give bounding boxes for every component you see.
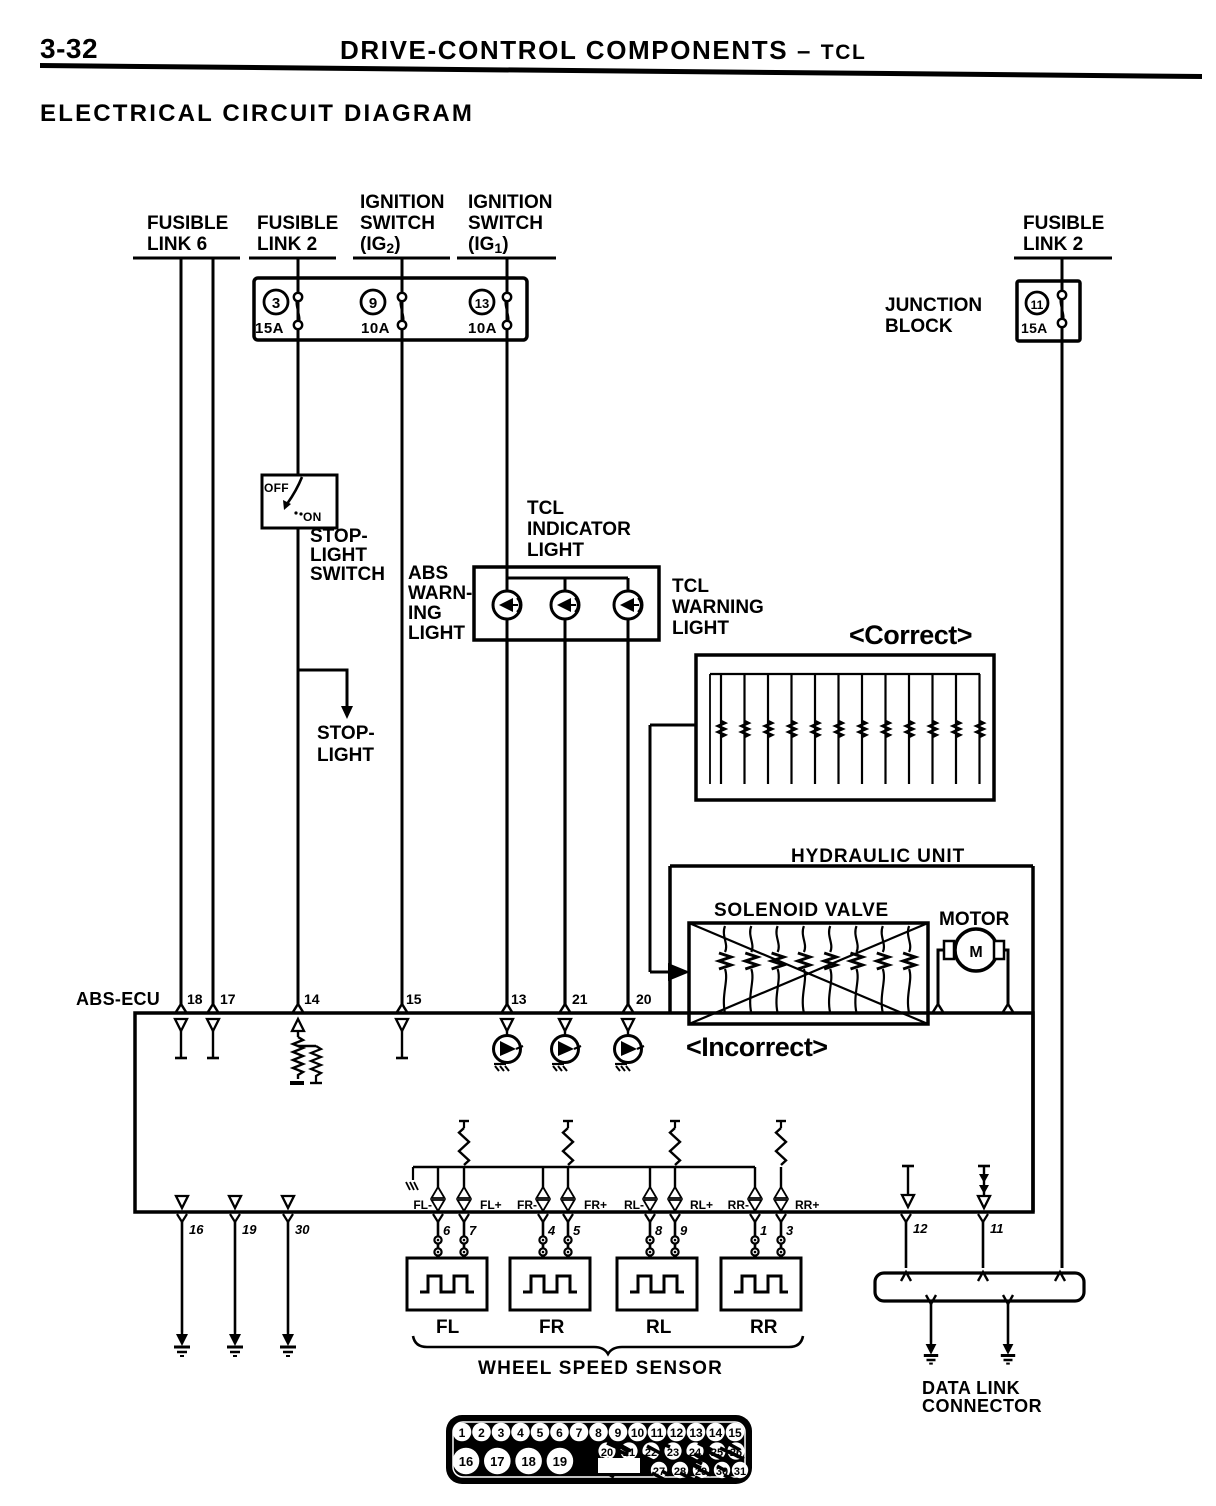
svg-text:14: 14 [709,1426,723,1440]
svg-text:LIGHT: LIGHT [317,745,374,766]
svg-text:3-32: 3-32 [40,33,98,64]
svg-text:JUNCTION: JUNCTION [885,295,982,316]
svg-text:9: 9 [680,1223,688,1238]
svg-text:LINK 2: LINK 2 [257,234,317,255]
svg-text:7: 7 [576,1426,583,1440]
svg-text:5: 5 [537,1426,544,1440]
svg-text:20: 20 [636,991,652,1007]
svg-text:LINK 2: LINK 2 [1023,234,1083,255]
svg-text:13: 13 [689,1426,703,1440]
svg-text:FR: FR [539,1317,565,1338]
svg-text:ABS: ABS [408,563,448,584]
svg-text:FL+: FL+ [480,1198,502,1212]
svg-text:FL: FL [436,1317,460,1338]
svg-text:(IG2): (IG2) [360,234,401,256]
svg-text:11: 11 [990,1221,1004,1236]
svg-text:9: 9 [369,295,377,312]
svg-text:10: 10 [631,1426,645,1440]
svg-text:LIGHT: LIGHT [672,618,729,639]
svg-text:TCL: TCL [527,498,564,519]
svg-text:OFF: OFF [264,481,289,495]
svg-text:6: 6 [443,1223,451,1238]
svg-text:10A: 10A [361,320,390,337]
svg-text:RL+: RL+ [690,1198,713,1212]
svg-text:12: 12 [670,1426,684,1440]
svg-text:31: 31 [734,1466,746,1478]
svg-text:13: 13 [475,296,489,311]
svg-text:IGNITION: IGNITION [360,192,444,213]
svg-text:17: 17 [220,991,236,1007]
svg-text:FL-: FL- [413,1198,432,1212]
svg-text:19: 19 [242,1222,257,1237]
svg-text:ON: ON [303,510,322,524]
svg-text:15A: 15A [255,320,284,337]
svg-text:WARN-: WARN- [408,583,472,604]
svg-text:SOLENOID VALVE: SOLENOID VALVE [714,900,889,921]
svg-text:19: 19 [553,1454,567,1469]
svg-text:ING: ING [408,603,442,624]
svg-text:15A: 15A [1021,320,1048,336]
svg-text:IGNITION: IGNITION [468,192,552,213]
svg-text:STOP-: STOP- [310,526,368,547]
svg-text:23: 23 [667,1447,679,1459]
svg-text:30: 30 [295,1222,310,1237]
svg-text:6: 6 [556,1426,563,1440]
svg-text:15: 15 [728,1426,742,1440]
svg-text:RL: RL [646,1317,672,1338]
svg-text:STOP-: STOP- [317,723,375,744]
svg-text:<Correct>: <Correct> [849,620,972,650]
svg-text:11: 11 [1031,298,1044,312]
svg-text:3: 3 [498,1426,505,1440]
svg-text:M: M [969,944,982,961]
svg-text:RR+: RR+ [795,1198,819,1212]
svg-text:8: 8 [595,1426,602,1440]
svg-text:WARNING: WARNING [672,597,764,618]
svg-text:18: 18 [521,1454,535,1469]
svg-text:16: 16 [459,1454,473,1469]
svg-text:HYDRAULIC UNIT: HYDRAULIC UNIT [791,846,965,867]
svg-text:12: 12 [913,1221,928,1236]
svg-text:LIGHT: LIGHT [527,540,584,561]
svg-text:18: 18 [187,991,203,1007]
svg-text:SWITCH: SWITCH [468,213,543,234]
svg-text:MOTOR: MOTOR [939,909,1010,930]
svg-text:13: 13 [511,991,527,1007]
svg-text:RL-: RL- [624,1198,644,1212]
svg-text:FR-: FR- [517,1198,537,1212]
svg-text:FR+: FR+ [584,1198,607,1212]
svg-text:10A: 10A [468,320,497,337]
svg-text:FUSIBLE: FUSIBLE [1023,213,1104,234]
svg-text:1: 1 [760,1223,767,1238]
svg-text:7: 7 [469,1223,477,1238]
svg-text:LINK 6: LINK 6 [147,234,207,255]
svg-text:4: 4 [547,1223,556,1238]
svg-text:16: 16 [189,1222,204,1237]
svg-text:ELECTRICAL CIRCUIT DIAGRAM: ELECTRICAL CIRCUIT DIAGRAM [40,100,474,127]
svg-text:2: 2 [478,1426,485,1440]
svg-text:FUSIBLE: FUSIBLE [147,213,228,234]
svg-text:17: 17 [490,1454,504,1469]
svg-text:21: 21 [572,991,588,1007]
svg-text:SWITCH: SWITCH [310,564,385,585]
svg-text:<Incorrect>: <Incorrect> [686,1032,828,1062]
svg-text:DATA LINK: DATA LINK [922,1378,1020,1398]
svg-text:1: 1 [459,1426,466,1440]
svg-text:TCL: TCL [672,576,709,597]
svg-text:RR: RR [750,1317,778,1338]
svg-text:RR-: RR- [728,1198,749,1212]
svg-text:FUSIBLE: FUSIBLE [257,213,338,234]
svg-text:DRIVE-CONTROL COMPONENTS –: DRIVE-CONTROL COMPONENTS – TCL [340,35,866,65]
svg-text:8: 8 [655,1223,663,1238]
svg-text:LIGHT: LIGHT [408,623,465,644]
svg-text:(IG1): (IG1) [468,234,509,256]
svg-text:ABS-ECU: ABS-ECU [76,989,160,1009]
svg-text:4: 4 [517,1426,524,1440]
svg-text:INDICATOR: INDICATOR [527,519,631,540]
svg-text:15: 15 [406,991,422,1007]
svg-text:LIGHT: LIGHT [310,545,367,566]
svg-text:WHEEL SPEED SENSOR: WHEEL SPEED SENSOR [478,1358,723,1379]
svg-text:3: 3 [786,1223,794,1238]
svg-text:11: 11 [651,1426,664,1440]
svg-text:3: 3 [272,295,280,312]
svg-text:SWITCH: SWITCH [360,213,435,234]
svg-text:5: 5 [573,1223,581,1238]
svg-text:CONNECTOR: CONNECTOR [922,1396,1042,1416]
svg-text:9: 9 [615,1426,622,1440]
svg-text:14: 14 [304,991,320,1007]
svg-text:BLOCK: BLOCK [885,316,953,337]
